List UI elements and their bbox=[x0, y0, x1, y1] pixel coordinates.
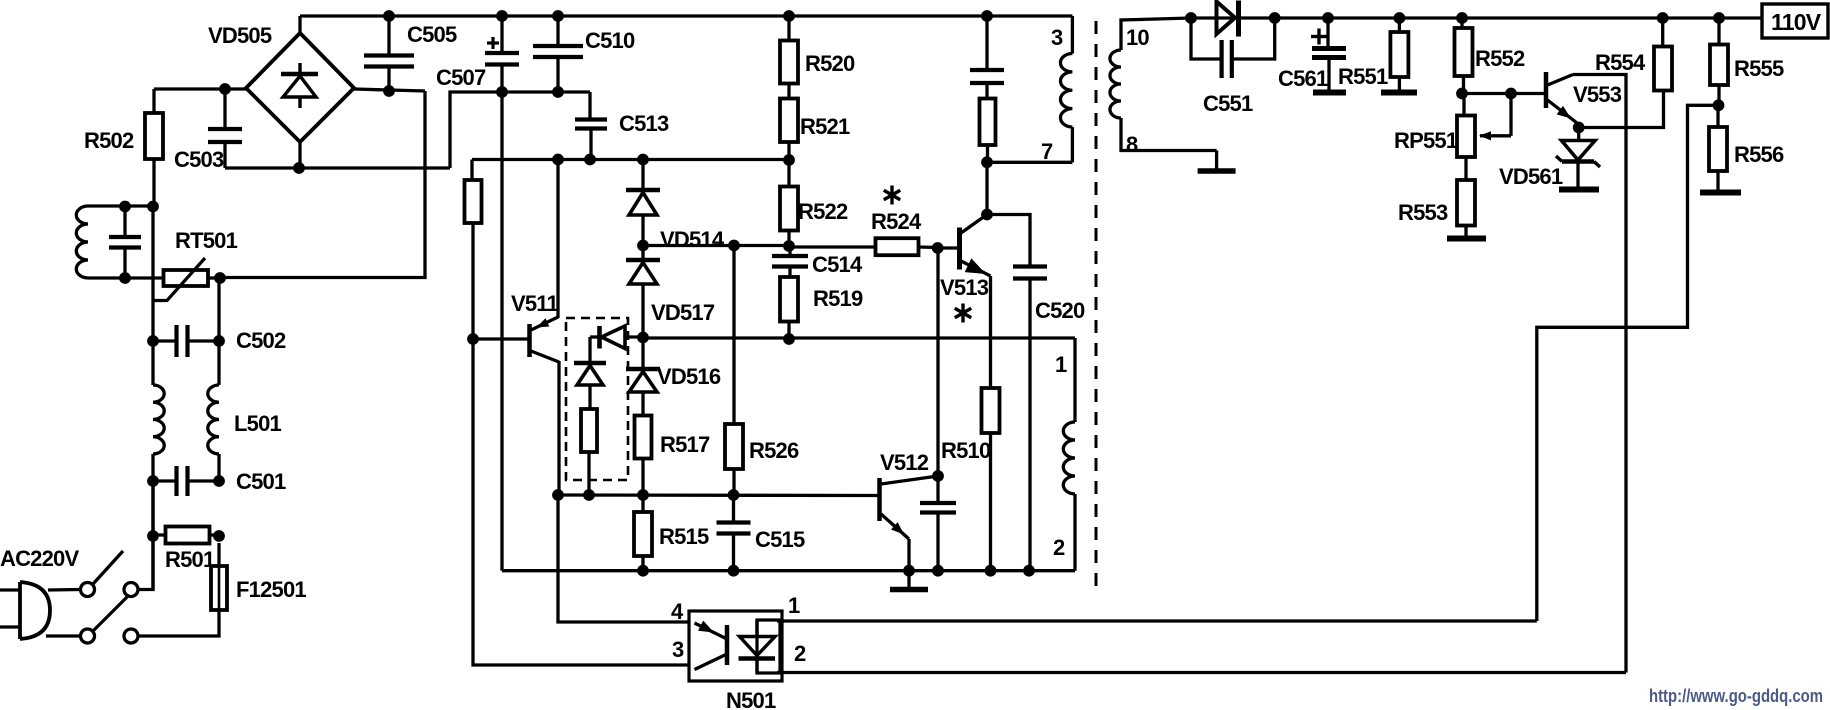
resistor R522 bbox=[780, 160, 798, 246]
svg-text:3: 3 bbox=[672, 637, 684, 662]
node D551 anode bbox=[1185, 12, 1197, 24]
node V513 collector bbox=[981, 209, 993, 221]
svg-text:2: 2 bbox=[794, 641, 806, 666]
svg-text:C503: C503 bbox=[174, 147, 224, 172]
resistor R553 bbox=[1457, 157, 1475, 236]
svg-text:RP551: RP551 bbox=[1394, 128, 1458, 153]
resistor R515 bbox=[634, 495, 652, 571]
ground pin8 bbox=[1198, 151, 1236, 172]
label AC220V bbox=[0, 546, 79, 571]
wire V513 collector up bbox=[985, 162, 988, 214]
label pin 1 winding bbox=[1055, 352, 1067, 377]
resistor R556 bbox=[1709, 105, 1727, 190]
node C501 left bbox=[147, 475, 159, 487]
wire V553 base line bbox=[1462, 92, 1544, 95]
svg-text:V512: V512 bbox=[880, 450, 929, 475]
transistor V511 bbox=[530, 317, 560, 362]
ground under R551 bbox=[1381, 90, 1417, 96]
svg-text:C515: C515 bbox=[755, 527, 805, 552]
ground under C561 bbox=[1313, 90, 1346, 96]
svg-text:C507: C507 bbox=[436, 65, 486, 90]
capacitor C514 bbox=[772, 246, 808, 278]
node R520 top bbox=[783, 10, 795, 22]
node C505 top bbox=[383, 10, 395, 22]
svg-text:R502: R502 bbox=[84, 128, 134, 153]
label R501 bbox=[165, 547, 215, 572]
node V511 emitter top bbox=[552, 154, 564, 166]
capacitor C510 bbox=[533, 16, 583, 92]
svg-text:VD517: VD517 bbox=[651, 300, 715, 325]
label L501 bbox=[234, 411, 282, 436]
svg-text:R522: R522 bbox=[798, 199, 848, 224]
node C561 top bbox=[1322, 12, 1334, 24]
fuse F12501 bbox=[211, 543, 227, 610]
svg-text:L501: L501 bbox=[234, 411, 282, 436]
wire N501 pin4 bbox=[558, 495, 689, 622]
capacitor C502 bbox=[153, 325, 219, 357]
wire switch S1a to C501 left column bbox=[139, 481, 154, 590]
resistor R551 bbox=[1390, 18, 1408, 90]
isolation dashed line bbox=[1095, 21, 1098, 588]
node R526 top bbox=[728, 240, 740, 252]
label pin 10 bbox=[1126, 25, 1149, 50]
wire winding1 top corner bbox=[1073, 338, 1076, 422]
node snubber top bbox=[981, 10, 993, 22]
wire collector to C520 bbox=[987, 215, 1030, 267]
capacitor C507 electrolytic bbox=[485, 16, 519, 571]
wire switch S1b to fuse bbox=[139, 610, 220, 636]
svg-text:V511: V511 bbox=[511, 291, 559, 316]
node snubber bottom bbox=[981, 156, 993, 168]
switch S1b bbox=[81, 597, 139, 643]
svg-text:R553: R553 bbox=[1398, 200, 1448, 225]
diode VD517 bbox=[626, 246, 660, 338]
node R522-C514 junction bbox=[783, 240, 795, 252]
capacitor C515 bbox=[717, 495, 751, 571]
node V513 base bbox=[932, 242, 944, 254]
node RP551 wiper top bbox=[1505, 88, 1517, 100]
capacitor C520 bbox=[1013, 267, 1047, 571]
node R521 bottom bbox=[783, 154, 795, 166]
svg-text:8: 8 bbox=[1126, 132, 1138, 157]
wire secondary rail bbox=[1191, 16, 1762, 19]
node VD516 top junction bbox=[637, 332, 649, 344]
node R515 bottom bbox=[637, 565, 649, 577]
node R515 top bbox=[637, 489, 649, 501]
optocoupler N501 box bbox=[689, 611, 782, 681]
node coil-cap top bbox=[119, 201, 131, 213]
resistor R524 bbox=[876, 238, 938, 255]
resistor R526 bbox=[725, 246, 743, 496]
node VD514 bottom bbox=[637, 240, 649, 252]
svg-text:R555: R555 bbox=[1734, 56, 1784, 81]
label R502 bbox=[84, 128, 134, 153]
node C505 bottom bbox=[383, 85, 395, 97]
label C502 bbox=[236, 328, 286, 353]
label C551 bbox=[1203, 91, 1253, 116]
snubber capacitor bbox=[970, 16, 1004, 83]
svg-text:1: 1 bbox=[1055, 352, 1067, 377]
node R551 top bbox=[1394, 12, 1406, 24]
resistor R511 unlabeled bbox=[465, 180, 482, 339]
diode VD551 bbox=[1217, 1, 1239, 37]
label R551 bbox=[1338, 64, 1388, 89]
label RT501 bbox=[175, 228, 238, 253]
svg-text:VD505: VD505 bbox=[208, 23, 272, 48]
resistor R502 bbox=[145, 89, 163, 206]
label C520 bbox=[1035, 298, 1085, 323]
node bridge bottom bbox=[293, 162, 305, 174]
label F12501 bbox=[236, 577, 306, 602]
node C502 right bbox=[213, 335, 225, 347]
svg-text:VD561: VD561 bbox=[1499, 164, 1563, 189]
AC plug P1 bbox=[0, 582, 50, 639]
label R552 bbox=[1475, 46, 1525, 71]
wire bridge bottom stem bbox=[298, 142, 301, 168]
label pin 4 bbox=[671, 599, 684, 624]
wire C514 junction to R524 bbox=[789, 245, 876, 248]
resistor R513 in dashed box bbox=[581, 409, 597, 495]
label C515 bbox=[755, 527, 805, 552]
label N501 bbox=[726, 688, 776, 710]
resistor R519 bbox=[780, 277, 798, 339]
dashed box bbox=[566, 318, 628, 480]
svg-text:C502: C502 bbox=[236, 328, 286, 353]
asterisk V513 bbox=[955, 304, 971, 323]
ground under V512 bbox=[890, 571, 928, 590]
node V553 emitter bbox=[1573, 122, 1585, 134]
wire V512 collector to V513 base bbox=[936, 248, 939, 476]
wire drive line bbox=[643, 336, 1075, 339]
label C503 bbox=[174, 147, 224, 172]
label V511 bbox=[511, 291, 559, 316]
wire coil top bbox=[88, 204, 153, 207]
wire N501 pin1 long bbox=[777, 619, 1537, 622]
svg-text:C520: C520 bbox=[1035, 298, 1085, 323]
svg-text:1: 1 bbox=[788, 593, 800, 618]
node R519 bottom bbox=[783, 333, 795, 345]
node C507 top bbox=[496, 10, 508, 22]
svg-text:VD514: VD514 bbox=[660, 227, 725, 252]
label RP551 bbox=[1394, 128, 1458, 153]
wire step up to C507 net bbox=[450, 92, 590, 168]
transformer primary winding pin3-7 bbox=[1060, 16, 1072, 162]
wire C502 columns up bbox=[153, 206, 219, 341]
svg-text:R526: R526 bbox=[749, 438, 799, 463]
node C510 bottom bbox=[552, 86, 564, 98]
node coil-cap bottom bbox=[119, 272, 131, 284]
svg-text:10: 10 bbox=[1126, 25, 1149, 50]
label R555 bbox=[1734, 56, 1784, 81]
label R521 bbox=[800, 114, 850, 139]
label V512 bbox=[880, 450, 929, 475]
node R513 bottom bbox=[583, 489, 595, 501]
svg-text:C510: C510 bbox=[585, 28, 635, 53]
wire VD514 junction to R522 bottom bbox=[643, 244, 789, 247]
capacitor C551 bbox=[1191, 18, 1275, 78]
wire V511 collector down bbox=[557, 361, 560, 495]
wire RT501 to bridge right net bbox=[220, 91, 425, 278]
node V512 collector bbox=[932, 470, 944, 482]
svg-text:2: 2 bbox=[1053, 535, 1065, 560]
label R553 bbox=[1398, 200, 1448, 225]
label R519 bbox=[813, 286, 863, 311]
wire bridge top to rail bbox=[298, 16, 301, 33]
transistor V513 bbox=[960, 215, 991, 281]
node V511 collector bottom bbox=[552, 489, 564, 501]
wire ground rail y571 bbox=[502, 569, 1075, 572]
svg-text:C513: C513 bbox=[619, 111, 669, 136]
resistor R552 bbox=[1455, 18, 1473, 94]
wire bottom rail C503 to step bbox=[225, 166, 450, 169]
transformer winding pin1-2 bbox=[1063, 422, 1075, 571]
label VD514 bbox=[660, 227, 725, 252]
node R552 top bbox=[1456, 12, 1468, 24]
label pin 8 bbox=[1126, 132, 1138, 157]
resistor R517 bbox=[635, 416, 652, 496]
node C513 bottom bbox=[584, 154, 596, 166]
wire plug to switches bbox=[46, 590, 80, 637]
transistor V512 bbox=[880, 476, 939, 571]
degaussing coil bbox=[76, 206, 88, 278]
node C503 top bbox=[219, 83, 231, 95]
svg-text:http://www.go-gddq.com: http://www.go-gddq.com bbox=[1649, 686, 1823, 706]
optocoupler N501 inner box bbox=[757, 620, 780, 673]
svg-text:4: 4 bbox=[671, 599, 684, 624]
capacitor C501 bbox=[153, 466, 219, 496]
wire R502 top to bridge left bbox=[154, 87, 246, 90]
asterisk R524 bbox=[884, 186, 900, 205]
wire bridge right to C505 bottom bbox=[354, 89, 425, 91]
node C515 top bbox=[728, 489, 740, 501]
ground under R553 bbox=[1447, 236, 1486, 242]
wire left column C501-R501 bbox=[151, 481, 154, 590]
wire RT501 right bbox=[208, 276, 220, 279]
node C516 bottom bbox=[932, 565, 944, 577]
svg-text:VD516: VD516 bbox=[657, 364, 721, 389]
diode VD512 left-pointing bbox=[590, 326, 643, 349]
node RT501 right bbox=[214, 272, 226, 284]
wire V553 collector feedback bbox=[1573, 75, 1626, 673]
svg-text:C551: C551 bbox=[1203, 91, 1253, 116]
wire N501 pin2 long bbox=[777, 671, 1626, 674]
label V513 bbox=[940, 275, 989, 300]
potentiometer RP551 bbox=[1457, 94, 1511, 158]
label R510 bbox=[941, 438, 991, 463]
wire V511 emitter up bbox=[556, 160, 559, 319]
node C510 top bbox=[552, 10, 564, 22]
label pin 7 bbox=[1041, 139, 1053, 164]
node C515 bottom bbox=[728, 565, 740, 577]
svg-text:R515: R515 bbox=[659, 524, 709, 549]
svg-text:V513: V513 bbox=[940, 275, 989, 300]
svg-text:N501: N501 bbox=[726, 688, 776, 710]
N501 phototransistor bbox=[695, 621, 728, 670]
svg-text:R556: R556 bbox=[1734, 142, 1784, 167]
transformer secondary winding 10-8 bbox=[1110, 18, 1217, 151]
svg-text:R554: R554 bbox=[1595, 50, 1646, 75]
node V512 emitter bottom bbox=[903, 565, 915, 577]
ground under R556 bbox=[1700, 190, 1741, 196]
label VD516 bbox=[657, 364, 721, 389]
svg-text:AC220V: AC220V bbox=[0, 546, 79, 571]
switch S1a bbox=[81, 551, 139, 597]
label C561 bbox=[1278, 66, 1328, 91]
wire mid rail corner down bbox=[470, 160, 473, 181]
svg-text:R551: R551 bbox=[1338, 64, 1388, 89]
label VD517 bbox=[651, 300, 715, 325]
thermistor RT501 bbox=[153, 258, 208, 301]
svg-text:C501: C501 bbox=[236, 469, 286, 494]
svg-text:F12501: F12501 bbox=[236, 577, 306, 602]
label R520 bbox=[805, 51, 855, 76]
capacitor C516 unlabeled bbox=[920, 476, 956, 571]
resistor R501 bbox=[153, 527, 219, 544]
capacitor C505 bbox=[364, 16, 414, 91]
label C505 bbox=[407, 22, 457, 47]
node R555 bottom bbox=[1713, 99, 1725, 111]
wire coil bottom bbox=[88, 276, 164, 279]
label pin 3 bbox=[1051, 25, 1063, 50]
label pin 3 bbox=[672, 637, 684, 662]
label C514 bbox=[812, 252, 863, 277]
label R522 bbox=[798, 199, 848, 224]
diode VD513 in dashed box bbox=[574, 337, 606, 409]
label R556 bbox=[1734, 142, 1784, 167]
node R554 top bbox=[1657, 12, 1669, 24]
resistor R554 bbox=[1654, 18, 1672, 91]
node R501 left bbox=[147, 530, 159, 542]
transistor V553 bbox=[1546, 72, 1577, 123]
node R555 top bbox=[1713, 12, 1725, 24]
svg-text:R517: R517 bbox=[660, 432, 710, 457]
wire R511 column to N501 pin3 bbox=[473, 339, 689, 665]
node C520 bottom bbox=[1023, 565, 1035, 577]
wire V513 base bbox=[938, 246, 958, 249]
capacitor C561 electrolytic bbox=[1311, 18, 1346, 90]
N501 LED bbox=[739, 620, 776, 673]
wire V513 emitter down bbox=[989, 276, 992, 388]
label R526 bbox=[749, 438, 799, 463]
node C501 right bbox=[213, 475, 225, 487]
svg-text:7: 7 bbox=[1041, 139, 1053, 164]
capacitor C503 bbox=[208, 89, 242, 168]
svg-text:R520: R520 bbox=[805, 51, 855, 76]
resistor R510 bbox=[982, 388, 1000, 571]
label R554 bbox=[1595, 50, 1646, 75]
svg-text:R510: R510 bbox=[941, 438, 991, 463]
label R524 bbox=[871, 209, 922, 234]
label VD561 bbox=[1499, 164, 1563, 189]
node R552 bottom bbox=[1456, 88, 1468, 100]
node VD514 top bbox=[637, 154, 649, 166]
svg-text:V553: V553 bbox=[1573, 82, 1622, 107]
label R515 bbox=[659, 524, 709, 549]
svg-text:C505: C505 bbox=[407, 22, 457, 47]
ground under VD561 bbox=[1559, 187, 1599, 193]
wire base rail y495 bbox=[555, 493, 879, 497]
svg-text:110V: 110V bbox=[1771, 9, 1822, 35]
resistor R521 bbox=[780, 84, 798, 160]
watermark bbox=[1649, 686, 1823, 706]
capacitor C500 across coil bbox=[109, 206, 141, 278]
svg-text:R501: R501 bbox=[165, 547, 215, 572]
capacitor C513 bbox=[575, 92, 607, 160]
label VD505 bbox=[208, 23, 272, 48]
label pin 1 bbox=[788, 593, 800, 618]
node C507 bottom bbox=[496, 86, 508, 98]
diode VD516 bbox=[626, 337, 660, 416]
svg-text:R521: R521 bbox=[800, 114, 850, 139]
wire R556 junction feedback to pin1 bbox=[1537, 105, 1719, 621]
resistor R520 bbox=[780, 16, 798, 84]
snubber resistor bbox=[980, 83, 996, 162]
inductor L501 left winding bbox=[153, 341, 164, 481]
wire emitter to R554 bottom bbox=[1579, 91, 1664, 128]
wire mid rail bbox=[472, 158, 789, 161]
label pin 2 bbox=[794, 641, 806, 666]
output box 110V bbox=[1762, 4, 1828, 38]
node R501 right bbox=[213, 530, 225, 542]
svg-text:C514: C514 bbox=[812, 252, 863, 277]
node D551 cathode net bbox=[1269, 12, 1281, 24]
wire V511 base bbox=[473, 337, 530, 340]
label pin 2 winding bbox=[1053, 535, 1065, 560]
diode VD514 bbox=[626, 160, 660, 246]
label C513 bbox=[619, 111, 669, 136]
node R511 bottom bbox=[467, 333, 479, 345]
node R502 bottom junction bbox=[147, 201, 159, 213]
svg-text:3: 3 bbox=[1051, 25, 1063, 50]
svg-text:C561: C561 bbox=[1278, 66, 1328, 91]
svg-text:R552: R552 bbox=[1475, 46, 1525, 71]
resistor R555 bbox=[1710, 18, 1728, 105]
label C507 bbox=[436, 65, 486, 90]
node R510 bottom bbox=[985, 565, 997, 577]
label R517 bbox=[660, 432, 710, 457]
node C502 left bbox=[147, 335, 159, 347]
svg-text:R519: R519 bbox=[813, 286, 863, 311]
svg-text:R524: R524 bbox=[871, 209, 922, 234]
inductor L501 right winding bbox=[208, 341, 219, 481]
wire pin7 line bbox=[987, 161, 1072, 164]
wire top rail primary bbox=[300, 14, 1072, 17]
zener diode VD561 bbox=[1556, 128, 1600, 188]
bridge rectifier VD505 bbox=[246, 33, 354, 142]
svg-text:RT501: RT501 bbox=[175, 228, 238, 253]
label C510 bbox=[585, 28, 635, 53]
label V553 bbox=[1573, 82, 1622, 107]
label C501 bbox=[236, 469, 286, 494]
